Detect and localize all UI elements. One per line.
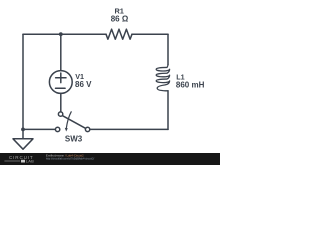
wire bottom-left horizontal [23,128,55,130]
svg-text:LAB: LAB [26,158,34,163]
wire top-left horizontal [23,33,106,35]
wire top-right horizontal [132,33,168,35]
ground [13,139,33,149]
wire bottom-right horizontal [90,128,168,130]
switch SW3 [55,112,89,132]
wire right rail top [167,34,169,64]
node bottom junction [21,127,25,131]
wire left rail [22,34,24,129]
node top junction [59,32,63,36]
watermark text [46,153,95,160]
voltage source V1 [49,71,72,94]
wire right rail bottom [167,91,169,130]
watermark bar [0,153,220,165]
svg-text:http://circuitlab.com/c/7u5dj9: http://circuitlab.com/c/7u5dj9/lab4-circ… [46,156,95,160]
wire V1 to switch [60,93,62,112]
svg-text:SW3: SW3 [65,135,83,144]
CircuitLab logo [4,155,34,163]
wire ground stem [22,129,24,138]
svg-text:860 mH: 860 mH [176,80,205,89]
svg-text:86 Ω: 86 Ω [111,15,129,24]
resistor R1 [106,29,132,39]
inductor L1 [156,65,169,91]
svg-text:86 V: 86 V [75,80,92,89]
wire V1 branch top [60,34,62,71]
